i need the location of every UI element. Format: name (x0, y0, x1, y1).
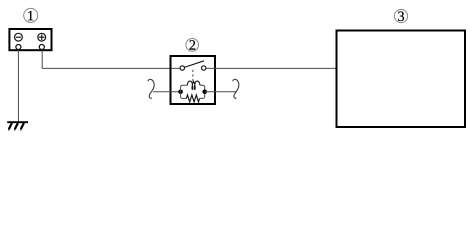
positive pin (39, 45, 44, 50)
break symbol right (233, 79, 239, 98)
wire resistor lower rail right (200, 92, 205, 99)
wire main horizontal to relay (42, 67, 180, 69)
break symbol left (148, 79, 154, 98)
negative terminal symbol (15, 33, 23, 41)
relay box 2 outline (171, 56, 216, 104)
switch contact left (180, 66, 184, 70)
label 3 circled digit for module (394, 9, 407, 22)
ground (7, 122, 28, 131)
positive terminal symbol (38, 33, 46, 41)
battery box 1 outline (9, 29, 51, 50)
switch blade (184, 61, 204, 68)
resistor zigzag (186, 95, 199, 102)
wire from positive pin down (41, 50, 43, 68)
label 1 circled digit for power supply (24, 8, 38, 22)
label 2 circled digit for relay (186, 39, 199, 52)
junction dot right (202, 90, 207, 95)
negative pin (16, 45, 21, 50)
wire coil stub left (153, 91, 181, 93)
switch actuator dashed link (192, 70, 194, 82)
module box 3 outline (337, 31, 466, 128)
wire resistor lower rail left (181, 92, 187, 99)
wire coil upper rail left (181, 85, 188, 92)
junction dot left (178, 90, 183, 95)
switch contact right (202, 66, 206, 70)
wire coil upper rail right (200, 85, 205, 92)
wire coil stub right (205, 91, 237, 93)
wire ground drop (17, 50, 19, 122)
wire switch to module 3 (206, 67, 336, 69)
relay coil (187, 81, 200, 89)
